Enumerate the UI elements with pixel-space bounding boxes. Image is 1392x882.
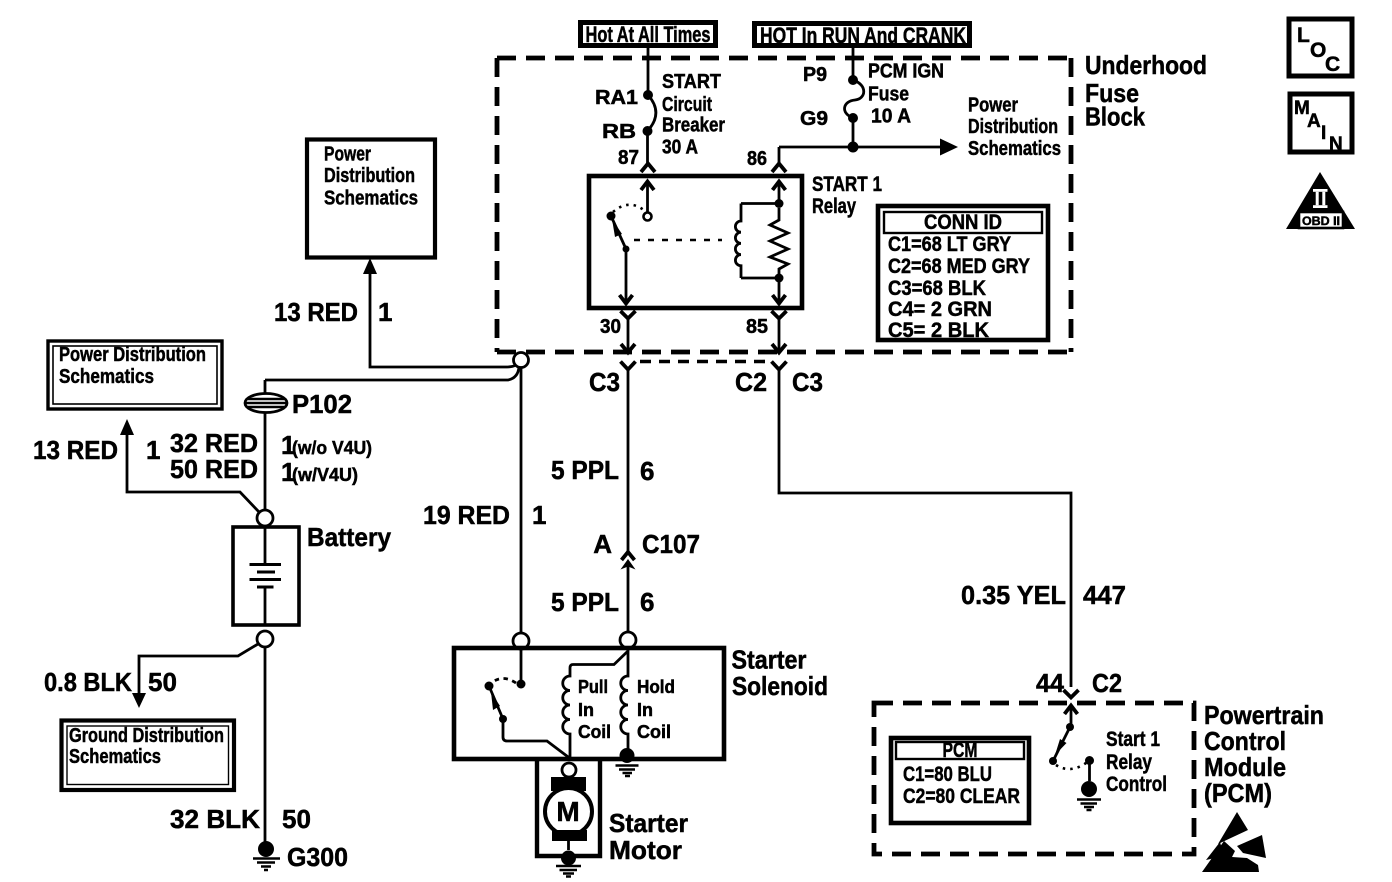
svg-text:447: 447 <box>1083 580 1126 610</box>
svg-text:0.8 BLK: 0.8 BLK <box>44 667 132 697</box>
svg-text:44: 44 <box>1036 668 1065 698</box>
svg-text:Coil: Coil <box>637 722 671 742</box>
svg-text:Schematics: Schematics <box>968 138 1061 160</box>
svg-text:In: In <box>578 700 594 720</box>
svg-text:Schematics: Schematics <box>324 188 418 210</box>
svg-text:19 RED: 19 RED <box>423 500 510 530</box>
svg-text:Battery: Battery <box>307 522 392 552</box>
svg-text:87: 87 <box>618 147 639 169</box>
svg-text:30: 30 <box>600 316 621 338</box>
svg-text:Block: Block <box>1085 102 1145 132</box>
svg-text:5 PPL: 5 PPL <box>551 587 619 617</box>
svg-text:Schematics: Schematics <box>69 746 161 768</box>
svg-text:M: M <box>556 796 579 827</box>
svg-text:C2=80 CLEAR: C2=80 CLEAR <box>903 785 1020 808</box>
svg-text:C3=68 BLK: C3=68 BLK <box>888 277 986 300</box>
svg-text:Ground Distribution: Ground Distribution <box>69 725 224 747</box>
svg-text:HOT In RUN And CRANK: HOT In RUN And CRANK <box>760 23 966 48</box>
svg-text:50: 50 <box>282 804 311 834</box>
svg-text:C3: C3 <box>589 367 620 397</box>
svg-text:Coil: Coil <box>578 722 611 742</box>
svg-text:1: 1 <box>146 435 160 465</box>
svg-text:(PCM): (PCM) <box>1204 778 1272 808</box>
svg-text:PCM IGN: PCM IGN <box>868 61 944 83</box>
svg-text:C5= 2 BLK: C5= 2 BLK <box>888 319 989 342</box>
svg-text:1: 1 <box>532 500 546 530</box>
svg-text:C1=68 LT GRY: C1=68 LT GRY <box>888 233 1011 256</box>
svg-text:13 RED: 13 RED <box>274 297 358 327</box>
svg-text:P102: P102 <box>292 389 352 419</box>
svg-text:50 RED: 50 RED <box>170 454 258 484</box>
svg-text:OBD II: OBD II <box>1302 214 1340 228</box>
svg-text:Relay: Relay <box>812 195 856 218</box>
svg-text:C107: C107 <box>642 529 700 559</box>
svg-text:O: O <box>1310 39 1326 62</box>
svg-text:G9: G9 <box>800 108 828 130</box>
svg-text:13 RED: 13 RED <box>33 435 118 465</box>
svg-text:CONN ID: CONN ID <box>924 211 1002 234</box>
svg-text:G300: G300 <box>287 842 348 872</box>
svg-text:C2: C2 <box>735 367 767 397</box>
svg-text:I: I <box>1321 123 1326 144</box>
svg-text:Motor: Motor <box>609 835 682 865</box>
svg-text:6: 6 <box>640 456 654 486</box>
svg-text:Underhood: Underhood <box>1085 50 1207 80</box>
svg-text:RB: RB <box>602 121 636 143</box>
svg-text:L: L <box>1297 24 1310 47</box>
svg-text:0.35 YEL: 0.35 YEL <box>961 580 1066 610</box>
svg-text:Power Distribution: Power Distribution <box>59 344 206 366</box>
svg-text:In: In <box>637 700 653 720</box>
svg-text:Distribution: Distribution <box>324 165 415 187</box>
svg-text:Power: Power <box>968 95 1018 117</box>
svg-text:Starter: Starter <box>732 645 807 675</box>
svg-text:Distribution: Distribution <box>968 116 1058 138</box>
svg-text:50: 50 <box>148 667 177 697</box>
svg-text:5 PPL: 5 PPL <box>551 455 619 485</box>
svg-text:Start 1: Start 1 <box>1106 728 1160 751</box>
svg-text:P9: P9 <box>803 64 827 86</box>
svg-text:START: START <box>662 71 721 93</box>
svg-text:Relay: Relay <box>1106 751 1152 774</box>
svg-text:N: N <box>1329 134 1343 155</box>
svg-text:Solenoid: Solenoid <box>732 671 828 701</box>
svg-text:START 1: START 1 <box>812 173 882 196</box>
svg-text:C1=80 BLU: C1=80 BLU <box>903 763 992 786</box>
svg-text:86: 86 <box>747 148 767 170</box>
svg-text:C2: C2 <box>1092 668 1122 698</box>
svg-text:Hold: Hold <box>637 677 675 697</box>
svg-text:C3: C3 <box>792 367 823 397</box>
svg-text:Control: Control <box>1106 773 1167 796</box>
svg-text:6: 6 <box>640 587 654 617</box>
svg-text:Hot At All Times: Hot At All Times <box>586 22 711 47</box>
svg-text:1: 1 <box>378 297 392 327</box>
svg-text:Breaker: Breaker <box>662 115 725 137</box>
svg-text:Fuse: Fuse <box>868 84 909 106</box>
svg-text:32 BLK: 32 BLK <box>170 804 260 834</box>
svg-text:RA1: RA1 <box>595 87 638 109</box>
svg-text:30 A: 30 A <box>662 137 698 159</box>
svg-text:10 A: 10 A <box>871 106 911 128</box>
svg-text:A: A <box>593 529 612 559</box>
svg-text:Pull: Pull <box>578 677 608 697</box>
svg-text:PCM: PCM <box>943 739 978 762</box>
svg-text:Starter: Starter <box>609 808 688 838</box>
svg-text:(w/V4U): (w/V4U) <box>292 465 358 485</box>
svg-text:Schematics: Schematics <box>59 366 154 388</box>
svg-text:Circuit: Circuit <box>662 94 712 116</box>
svg-text:A: A <box>1307 111 1321 132</box>
svg-text:C: C <box>1325 53 1340 76</box>
svg-text:C4= 2 GRN: C4= 2 GRN <box>888 298 992 321</box>
svg-text:Power: Power <box>324 144 371 166</box>
svg-text:85: 85 <box>746 316 768 338</box>
svg-text:(w/o V4U): (w/o V4U) <box>292 438 372 458</box>
svg-text:C2=68 MED GRY: C2=68 MED GRY <box>888 255 1030 278</box>
